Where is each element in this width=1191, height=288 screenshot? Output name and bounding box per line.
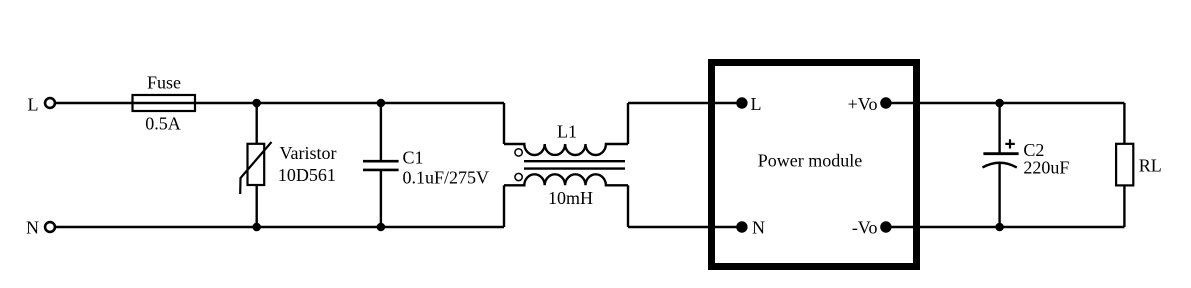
svg-text:10D561: 10D561 bbox=[278, 165, 336, 185]
svg-text:N: N bbox=[26, 218, 39, 238]
svg-text:L1: L1 bbox=[557, 122, 577, 142]
svg-text:Power module: Power module bbox=[758, 150, 862, 170]
svg-text:0.5A: 0.5A bbox=[145, 113, 181, 133]
svg-text:-Vo: -Vo bbox=[852, 218, 878, 238]
svg-text:C1: C1 bbox=[403, 148, 424, 168]
svg-text:L: L bbox=[28, 95, 39, 115]
svg-text:10mH: 10mH bbox=[548, 188, 593, 208]
svg-text:RL: RL bbox=[1139, 156, 1162, 176]
svg-text:0.1uF/275V: 0.1uF/275V bbox=[403, 168, 490, 188]
svg-text:220uF: 220uF bbox=[1023, 158, 1069, 178]
svg-text:L: L bbox=[751, 94, 762, 114]
svg-text:+Vo: +Vo bbox=[848, 94, 878, 114]
svg-text:Varistor: Varistor bbox=[280, 143, 337, 163]
svg-text:N: N bbox=[752, 218, 765, 238]
svg-text:Fuse: Fuse bbox=[147, 73, 181, 93]
